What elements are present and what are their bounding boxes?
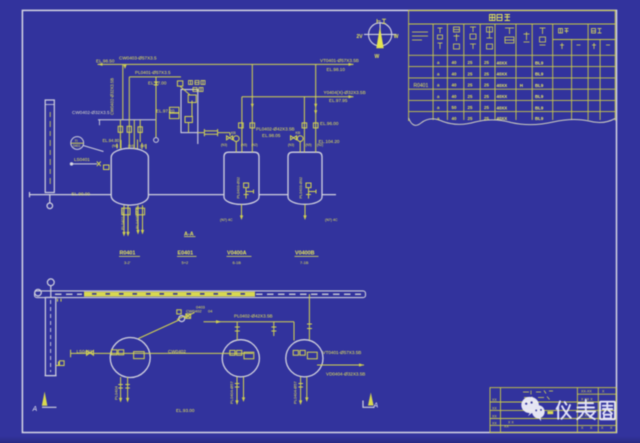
svg-text:PL0405-Ø32: PL0405-Ø32 <box>135 206 140 229</box>
svg-text:XX: XX <box>492 415 497 419</box>
svg-text:40XX: 40XX <box>497 116 508 121</box>
svg-text:25: 25 <box>484 105 489 110</box>
svg-text:25: 25 <box>468 71 473 76</box>
svg-text:25: 25 <box>468 116 473 121</box>
svg-text:X: X <box>610 426 613 430</box>
svg-text:CW0402: CW0402 <box>168 349 186 354</box>
svg-text:V0400A: V0400A <box>227 251 247 257</box>
svg-text:PL0402-Ø42X3.5B: PL0402-Ø42X3.5B <box>256 127 295 132</box>
svg-text:40XX: 40XX <box>497 60 508 65</box>
svg-text:a: a <box>437 94 440 99</box>
svg-text:40XX: 40XX <box>497 83 508 88</box>
svg-text:(N5): (N5) <box>306 143 312 147</box>
svg-text:(N8): (N8) <box>112 144 118 148</box>
svg-text:a: a <box>437 71 440 76</box>
svg-text:BL9: BL9 <box>535 83 544 88</box>
svg-text:40: 40 <box>452 71 457 76</box>
svg-text:BL9: BL9 <box>535 94 544 99</box>
svg-text:H: H <box>520 83 523 88</box>
svg-text:BL9: BL9 <box>535 116 544 121</box>
svg-text:EL.96.00: EL.96.00 <box>320 121 339 126</box>
svg-text:25: 25 <box>468 83 473 88</box>
svg-text:R0401: R0401 <box>414 83 429 89</box>
svg-text:50: 50 <box>452 105 457 110</box>
svg-text:PL0403-Ø32: PL0403-Ø32 <box>299 177 303 199</box>
svg-text:BL9: BL9 <box>535 105 544 110</box>
svg-text:25: 25 <box>468 94 473 99</box>
svg-text:PL0401-Ø57X3.5: PL0401-Ø57X3.5 <box>135 70 171 75</box>
svg-text:R0401: R0401 <box>120 251 136 257</box>
svg-text:CW0402-Ø32X3.5B: CW0402-Ø32X3.5B <box>110 78 115 115</box>
svg-text:40: 40 <box>452 94 457 99</box>
svg-text:XX: XX <box>492 421 497 425</box>
svg-text:25: 25 <box>484 71 489 76</box>
svg-text:EL.97.95: EL.97.95 <box>329 98 348 103</box>
svg-text:X: X <box>602 390 605 394</box>
svg-text:(N7) 4C: (N7) 4C <box>325 218 338 222</box>
svg-text:KB: KB <box>296 131 301 135</box>
svg-text:(N3): (N3) <box>221 143 227 147</box>
svg-text:W: W <box>394 34 399 40</box>
svg-text:a: a <box>437 83 440 88</box>
svg-text:PL0401-Ø57: PL0401-Ø57 <box>120 207 125 230</box>
svg-text:E0401: E0401 <box>178 251 194 257</box>
svg-text:PL0404-Ø57: PL0404-Ø57 <box>229 381 234 404</box>
svg-text:25: 25 <box>484 94 489 99</box>
svg-text:X X: X X <box>508 421 514 425</box>
svg-text:a: a <box>437 60 440 65</box>
svg-text:VT0401-Ø57X3.5B: VT0401-Ø57X3.5B <box>323 350 362 355</box>
svg-text:EL.97.00: EL.97.00 <box>148 80 167 85</box>
svg-text:CW0403-Ø57X3.5: CW0403-Ø57X3.5 <box>119 56 157 61</box>
svg-text:CW0402-Ø32X3.5: CW0402-Ø32X3.5 <box>72 110 110 115</box>
svg-text:VT0401-Ø57X3.5B: VT0401-Ø57X3.5B <box>320 58 359 63</box>
svg-text:5+2: 5+2 <box>182 260 190 265</box>
svg-text:BL9: BL9 <box>535 60 544 65</box>
svg-text:X XX X: X XX X <box>581 397 593 401</box>
svg-text:40: 40 <box>452 116 457 121</box>
svg-text:LS0401: LS0401 <box>74 157 90 162</box>
svg-text:6-1B: 6-1B <box>233 260 242 265</box>
svg-text:(N3): (N3) <box>288 143 294 147</box>
svg-text:40: 40 <box>452 83 457 88</box>
svg-text:EL.97.20: EL.97.20 <box>156 109 175 114</box>
svg-text:EL.90.00: EL.90.00 <box>72 192 91 197</box>
svg-text:XX: XX <box>492 398 497 402</box>
svg-text:PL0402-Ø42X3.5B: PL0402-Ø42X3.5B <box>234 314 273 319</box>
svg-text:0401: 0401 <box>73 144 81 148</box>
svg-text:40: 40 <box>452 60 457 65</box>
svg-text:EL.98.05: EL.98.05 <box>262 133 281 138</box>
svg-text:EL.98.50: EL.98.50 <box>96 59 115 64</box>
svg-text:40XX: 40XX <box>497 94 508 99</box>
svg-text:25: 25 <box>468 60 473 65</box>
svg-text:A: A <box>373 403 379 410</box>
svg-text:04: 04 <box>208 308 213 313</box>
svg-text:EL.94.80: EL.94.80 <box>103 138 120 143</box>
svg-text:(N7) 4C: (N7) 4C <box>220 218 233 222</box>
svg-text:PL0403-Ø32: PL0403-Ø32 <box>237 177 241 199</box>
svg-text:XX: XX <box>504 425 509 429</box>
svg-text:XX-XX: XX-XX <box>581 390 592 394</box>
svg-text:25: 25 <box>468 105 473 110</box>
svg-text:BL9: BL9 <box>535 72 544 77</box>
svg-text:(N2): (N2) <box>317 143 323 147</box>
svg-text:TI: TI <box>75 139 78 143</box>
svg-text:(N2): (N2) <box>252 143 258 147</box>
svg-text:PL0404: PL0404 <box>114 385 119 400</box>
svg-text:Y0404(X)-Ø32X3.5B: Y0404(X)-Ø32X3.5B <box>324 90 366 95</box>
svg-text:40XX: 40XX <box>497 72 508 77</box>
svg-text:EL.98.10: EL.98.10 <box>327 67 346 72</box>
svg-text:X: X <box>601 426 604 430</box>
svg-text:LS0401: LS0401 <box>77 349 93 354</box>
svg-text:X: X <box>581 426 584 430</box>
svg-text:EL.93.00: EL.93.00 <box>176 408 195 413</box>
svg-text:7-1B: 7-1B <box>300 260 309 265</box>
svg-text:XX: XX <box>492 406 497 410</box>
svg-text:A: A <box>32 406 38 413</box>
svg-text:a: a <box>437 105 440 110</box>
svg-text:25: 25 <box>484 60 489 65</box>
svg-text:PL0404-Ø57: PL0404-Ø57 <box>293 381 298 404</box>
svg-text:25: 25 <box>484 83 489 88</box>
svg-text:3-2': 3-2' <box>124 260 131 265</box>
svg-text:(N5): (N5) <box>241 143 247 147</box>
svg-text:40XX: 40XX <box>497 105 508 110</box>
svg-text:(N6): (N6) <box>140 144 146 148</box>
svg-text:KB: KB <box>231 131 236 135</box>
svg-text:0403: 0403 <box>196 304 206 309</box>
svg-text:2V: 2V <box>357 34 364 40</box>
svg-text:(N4): (N4) <box>128 144 134 148</box>
svg-text:V0400B: V0400B <box>295 251 315 257</box>
svg-text:25: 25 <box>484 116 489 121</box>
svg-text:W: W <box>375 54 380 60</box>
svg-text:X: X <box>590 426 593 430</box>
svg-text:VD0404-Ø32X3.5B: VD0404-Ø32X3.5B <box>326 371 365 376</box>
